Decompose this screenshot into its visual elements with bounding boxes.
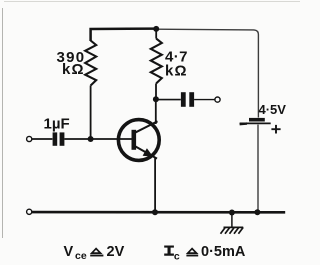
battery B1 plate left serif (240, 122, 247, 125)
transistor Q1 collector stroke (134, 121, 158, 133)
wire: C2 to output terminal (194, 99, 215, 101)
svg-text:kΩ: kΩ (165, 63, 188, 80)
node: emitter rail dot (152, 209, 158, 215)
ground stub wire (231, 213, 233, 228)
input terminal circle (27, 136, 32, 141)
wire: input to C1 (32, 138, 53, 140)
wire: battery to bottom rail (257, 125, 259, 212)
node: collector junction dot (153, 96, 159, 102)
node: battery rail dot (254, 209, 260, 215)
battery B1 positive plate (long thin) (240, 122, 271, 124)
battery B1 negative plate (thick) (249, 118, 265, 122)
wire: R1 bottom to base node (90, 86, 92, 140)
node: ground rail dot (229, 210, 235, 216)
wire: R2 bottom to collector node (155, 83, 157, 99)
label Ic condition (164, 246, 174, 256)
capacitor C2 output plates (181, 92, 186, 107)
node: base junction dot (88, 136, 94, 142)
symbol corresponds-to left (92, 249, 101, 254)
symbol corresponds-to right (188, 249, 197, 254)
wire: collector node to C2 (156, 99, 181, 101)
wire: top rail right segment to battery (156, 29, 258, 117)
wire: C1 to transistor base (64, 138, 132, 140)
bottom rail (32, 211, 285, 214)
svg-text:kΩ: kΩ (62, 61, 85, 78)
transistor Q1 base bar (132, 130, 137, 150)
output terminal circle (215, 97, 220, 102)
transistor Q1 emitter stroke (134, 146, 157, 159)
node: top rail junction dot at R2 (153, 26, 159, 32)
svg-text:4·5V: 4·5V (259, 102, 287, 117)
svg-text:c: c (174, 250, 180, 262)
svg-text:0·5mA: 0·5mA (201, 244, 246, 260)
svg-text:V: V (64, 244, 74, 260)
bottom-left terminal circle (27, 209, 32, 214)
resistor R2 4.7k zigzag (151, 39, 162, 84)
battery B1 plus sign (271, 125, 280, 134)
svg-text:1µF: 1µF (44, 115, 70, 132)
svg-text:ce: ce (75, 250, 87, 262)
ground earth symbol (221, 227, 244, 233)
scan edge line top (4, 1, 300, 3)
wire: rail to R2 top (155, 29, 157, 39)
transistor Q1 circle (118, 120, 159, 161)
scan edge line left (2, 8, 4, 238)
wire: emitter to bottom rail (154, 158, 156, 212)
svg-text:2V: 2V (107, 244, 125, 260)
resistor R1 390k zigzag (85, 41, 96, 86)
wire: collector node to transistor (155, 99, 157, 124)
transistor Q1 emitter arrow (143, 148, 154, 157)
capacitor C1 1uF plates (53, 132, 58, 145)
wire: top rail left segment (390k top to 4.7k top) (91, 29, 157, 41)
